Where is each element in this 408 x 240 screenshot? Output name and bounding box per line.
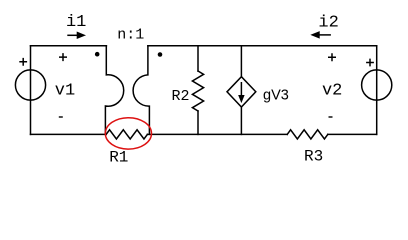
- svg-text:R2: R2: [171, 88, 189, 105]
- svg-text:i1: i1: [66, 13, 86, 32]
- svg-text:v2: v2: [322, 81, 342, 100]
- svg-text:n:1: n:1: [117, 26, 144, 43]
- svg-text:v1: v1: [55, 81, 75, 100]
- svg-text:i2: i2: [318, 14, 338, 33]
- svg-text:R1: R1: [109, 148, 128, 166]
- svg-text:R3: R3: [304, 148, 323, 166]
- svg-text:gV3: gV3: [263, 88, 289, 104]
